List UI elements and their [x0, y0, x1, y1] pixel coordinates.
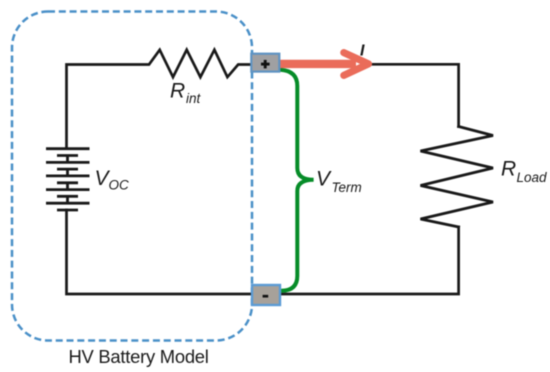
svg-text:I: I: [360, 43, 365, 60]
svg-text:V: V: [316, 168, 332, 191]
svg-text:OC: OC: [109, 178, 130, 193]
svg-text:int: int: [186, 91, 202, 106]
svg-text:R: R: [501, 158, 516, 181]
svg-text:HV Battery Model: HV Battery Model: [69, 346, 209, 367]
svg-text:Term: Term: [332, 180, 362, 195]
svg-text:Load: Load: [517, 170, 548, 185]
svg-text:R: R: [170, 80, 185, 103]
